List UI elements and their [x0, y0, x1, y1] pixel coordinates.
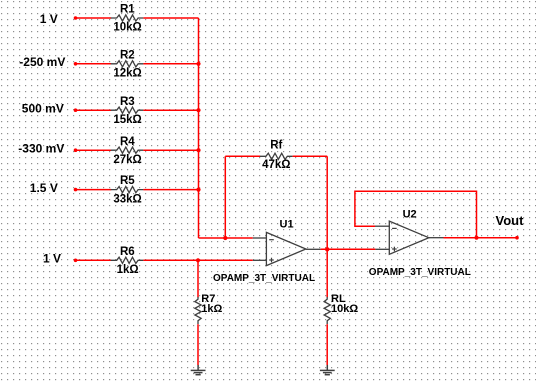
wire Rf right vertical to U1 output node	[326, 156, 328, 249]
svg-text:U2: U2	[403, 209, 417, 221]
wire RL to ground	[326, 324, 328, 365]
resistor R5	[111, 175, 144, 205]
svg-text:R2: R2	[120, 49, 135, 61]
svg-text:10kΩ: 10kΩ	[113, 22, 141, 34]
svg-text:47kΩ: 47kΩ	[262, 159, 290, 171]
resistor Rf	[260, 140, 293, 171]
wire R6 to U1 non-inverting input	[143, 259, 252, 261]
wire from R3 to summing bus	[143, 109, 198, 111]
wire RL branch vertical	[326, 249, 328, 297]
wire from R1 to summing bus	[143, 17, 198, 19]
resistor R1	[111, 4, 144, 34]
terminal dot row 3	[74, 108, 78, 112]
wire from R5 to summing bus	[143, 189, 198, 191]
resistor R2	[111, 49, 144, 79]
junction node U2 feedback/output	[474, 236, 478, 240]
svg-text:1 V: 1 V	[40, 12, 58, 26]
resistor R6	[111, 246, 144, 276]
wire Rf left branch vertical	[224, 156, 226, 238]
svg-text:R1: R1	[120, 4, 135, 16]
wire from 1 V terminal to R1	[76, 17, 112, 19]
ground below RL	[320, 365, 335, 375]
node Vout terminal	[496, 213, 525, 240]
wire U1 output to U2 non-inverting input	[321, 248, 376, 250]
wire from -330 mV terminal to R4	[76, 149, 112, 151]
svg-text:1kΩ: 1kΩ	[117, 264, 139, 276]
wire node A to R7	[197, 260, 199, 297]
op-amp U2	[369, 209, 471, 279]
wire from -250 mV terminal to R2	[76, 63, 112, 65]
resistor RL	[324, 293, 358, 324]
resistor R3	[111, 96, 144, 126]
terminal dot row 2	[74, 62, 78, 66]
svg-text:500 mV: 500 mV	[22, 102, 64, 116]
svg-text:R4: R4	[120, 136, 135, 148]
svg-text:27kΩ: 27kΩ	[113, 154, 141, 166]
wire U2 output to Vout	[444, 237, 518, 239]
wire U2 feedback loop	[355, 191, 477, 238]
junction node R7 branch	[196, 258, 200, 262]
svg-text:R5: R5	[120, 175, 135, 187]
wire from R2 to summing bus	[143, 63, 198, 65]
wire summing bus vertical	[198, 18, 200, 238]
ground below R7	[191, 365, 206, 375]
wire Rf left horizontal	[225, 155, 260, 157]
svg-text:R3: R3	[120, 96, 135, 108]
svg-text:Rf: Rf	[270, 140, 282, 152]
junction on bus row 4	[196, 148, 200, 152]
svg-text:OPAMP_3T_VIRTUAL: OPAMP_3T_VIRTUAL	[369, 267, 471, 278]
svg-text:1 V: 1 V	[43, 252, 61, 266]
junction on bus row 2	[196, 62, 200, 66]
svg-text:1kΩ: 1kΩ	[201, 303, 222, 315]
svg-text:10kΩ: 10kΩ	[331, 303, 358, 315]
wire bus corner to U1 inverting input	[199, 237, 253, 239]
wire from 1.5 V terminal to R5	[76, 189, 112, 191]
terminal dot row 1	[74, 16, 78, 20]
wire R7 to ground	[197, 324, 199, 365]
junction on bus row 3	[196, 108, 200, 112]
resistor R7	[195, 293, 223, 324]
svg-text:Vout: Vout	[496, 213, 525, 228]
svg-text:OPAMP_3T_VIRTUAL: OPAMP_3T_VIRTUAL	[213, 273, 315, 284]
wire Rf right horizontal	[293, 155, 328, 157]
junction node U1 output / RL branch	[325, 247, 329, 251]
junction node Rf branch	[223, 236, 227, 240]
wire from 500 mV terminal to R3	[76, 109, 112, 111]
svg-text:U1: U1	[280, 219, 294, 231]
svg-text:-250 mV: -250 mV	[19, 55, 65, 69]
op-amp U1	[213, 219, 321, 285]
wire from R4 to summing bus	[143, 149, 198, 151]
svg-text:33kΩ: 33kΩ	[113, 193, 141, 205]
svg-text:1.5 V: 1.5 V	[30, 181, 58, 195]
terminal dot row 4	[74, 148, 78, 152]
wire from 1 V terminal to R6	[76, 259, 112, 261]
junction on bus row 5	[196, 188, 200, 192]
svg-text:15kΩ: 15kΩ	[113, 114, 141, 126]
svg-text:R6: R6	[120, 246, 135, 258]
svg-text:12kΩ: 12kΩ	[113, 68, 141, 80]
terminal dot row 5	[74, 188, 78, 192]
svg-text:-330 mV: -330 mV	[18, 142, 64, 156]
resistor R4	[111, 136, 144, 166]
terminal dot row 6	[74, 259, 78, 263]
